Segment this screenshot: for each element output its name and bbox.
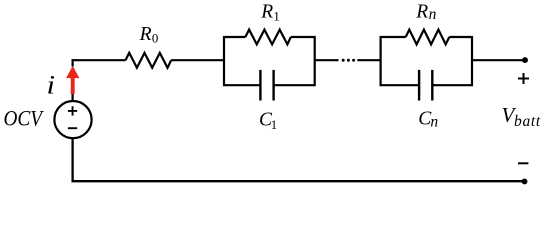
plus sign at terminal bbox=[518, 73, 529, 84]
wire top-left vertical stub above arrow bbox=[71, 59, 73, 66]
wire from pair n to positive terminal bbox=[472, 59, 525, 61]
bottom return wire bbox=[73, 139, 525, 182]
ellipsis dots (continuation) bbox=[342, 59, 355, 62]
label R0 bbox=[139, 24, 159, 46]
minus sign inside source bbox=[68, 127, 77, 129]
RC pair n frame (left/right verticals, top and bottom rails) bbox=[381, 37, 472, 85]
svg-text:batt: batt bbox=[514, 113, 541, 130]
svg-text:n: n bbox=[430, 113, 438, 130]
wire stub between arrow and source bbox=[71, 94, 73, 102]
positive terminal node bbox=[522, 57, 528, 63]
svg-text:1: 1 bbox=[273, 9, 279, 23]
svg-text:n: n bbox=[429, 6, 437, 23]
label C1 bbox=[259, 109, 277, 132]
voltage source OCV (circle) bbox=[54, 101, 91, 138]
label Vbatt bbox=[502, 103, 541, 130]
label R1 bbox=[260, 2, 280, 24]
capacitor Cn (bottom branch of pair n) bbox=[419, 70, 432, 101]
minus sign at terminal bbox=[518, 162, 528, 164]
current arrow i (red) bbox=[66, 66, 79, 94]
svg-text:1: 1 bbox=[271, 118, 277, 132]
negative terminal node bbox=[522, 178, 528, 184]
svg-text:R: R bbox=[260, 2, 273, 23]
label Cn bbox=[418, 108, 438, 130]
plus sign inside source bbox=[68, 106, 77, 115]
RC pair 1 frame (left/right verticals, top and bottom rails) bbox=[224, 37, 315, 85]
capacitor C1 (bottom branch of pair 1) bbox=[260, 70, 273, 101]
svg-text:OCV: OCV bbox=[4, 105, 45, 130]
wire between R0 and first RC pair bbox=[171, 59, 225, 61]
resistor Rn (top branch of pair n) bbox=[406, 30, 450, 45]
svg-text:0: 0 bbox=[152, 32, 158, 46]
wire from pair 1 to ellipsis bbox=[315, 59, 339, 61]
resistor R0 bbox=[126, 53, 172, 68]
svg-text:R: R bbox=[139, 24, 152, 45]
label Rn bbox=[415, 2, 436, 24]
wire top rail left segment bbox=[72, 59, 126, 61]
wire from ellipsis to pair n bbox=[357, 59, 381, 61]
resistor R1 (top branch of pair 1) bbox=[245, 30, 290, 45]
svg-text:i: i bbox=[47, 71, 56, 100]
svg-text:R: R bbox=[415, 2, 428, 23]
